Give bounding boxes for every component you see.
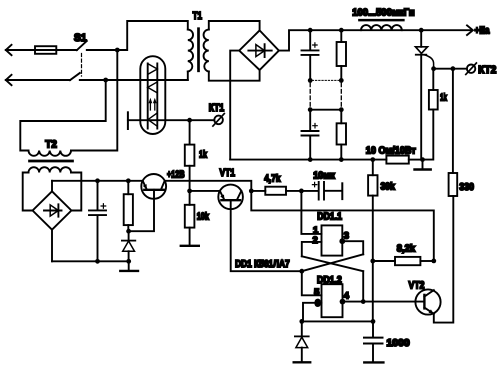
svg-text:DD1.1: DD1.1 — [317, 212, 342, 223]
wire: T1 secondary top to bridge — [209, 21, 260, 30]
wire: bus to 39k — [372, 160, 374, 322]
junction: rail right — [371, 319, 376, 324]
wire: latch node to DD1.2 pin5 — [302, 271, 322, 295]
junction: lower bus/C2 — [308, 157, 313, 162]
dotted link — [312, 79, 339, 81]
inductor L — [361, 25, 402, 30]
capacitor C4 (filter) — [96, 181, 98, 261]
wire: pass transistor base — [129, 190, 154, 231]
wire: mains line 2 — [6, 79, 70, 81]
svg-text:S1: S1 — [74, 32, 87, 44]
wire: DD1.1 pin3 out — [342, 241, 363, 254]
junction: bus/R1 — [339, 28, 344, 33]
junction: mid link right bottom — [339, 107, 344, 112]
inductor core bar — [359, 19, 403, 22]
optocoupler U1 body — [140, 56, 165, 134]
optocoupler light arrows — [150, 102, 154, 110]
ground symbol (regulator) — [128, 261, 130, 270]
wire: cross link pin3 to latch node — [302, 254, 363, 271]
optocoupler U1 left rail — [147, 63, 149, 128]
junction: zener/ground rail — [126, 259, 131, 264]
transformer T1 primary winding — [188, 30, 193, 72]
wire: 1k to divider node — [189, 120, 191, 205]
junction: line1/T2 — [115, 48, 120, 53]
resistor 4,7k — [265, 187, 286, 195]
wire: 1k to ground node — [423, 69, 434, 160]
wire: LED line to KT1 — [128, 119, 214, 121]
dashed continuation left — [309, 83, 311, 107]
junction: LED line/1k — [187, 118, 192, 123]
wire: cap node to DD1.1 pin1 — [301, 191, 321, 234]
transistor VT2 — [415, 289, 440, 314]
wire: to 8.2k — [373, 260, 395, 262]
junction: mid link left bottom — [308, 107, 313, 112]
optocoupler U1 right rail — [156, 63, 158, 128]
wire: node to VT1 — [190, 190, 220, 192]
wire: VT2 emitter to 330 — [434, 196, 454, 323]
junction: cap node — [299, 189, 304, 194]
optocoupler photodiode D1 — [148, 64, 158, 75]
wire: node to 4.7k — [251, 190, 265, 192]
ground symbol (1000) — [364, 361, 383, 363]
junction: lower bus/R2 — [339, 157, 344, 162]
wire: DD1.2 pin6 — [303, 303, 322, 322]
svg-text:DD1 К561ЛА7: DD1 К561ЛА7 — [235, 259, 290, 270]
polarity plus 10mk — [312, 182, 316, 186]
wire: bridge VD2 + output — [51, 181, 53, 192]
optocoupler photodiode D2 — [148, 82, 158, 93]
wire: line 2 to T1 primary bottom — [80, 79, 188, 81]
zener diode VD — [122, 240, 135, 242]
resistor 330 — [449, 173, 458, 196]
svg-text:39k: 39k — [381, 182, 396, 193]
resistor 8,2k — [395, 257, 420, 265]
wire: thyristor gate — [425, 55, 434, 69]
fuse FU1 — [35, 46, 56, 54]
capacitor 10mk — [319, 182, 324, 200]
junction: rail left — [299, 319, 304, 324]
junction: bus/39k — [370, 157, 375, 162]
junction: divider node — [187, 188, 192, 193]
svg-text:10k: 10k — [197, 211, 210, 222]
wire: T1 primary bottom — [187, 71, 189, 80]
bridge VD1 diode — [248, 44, 271, 57]
arrow: +Ea — [467, 25, 473, 35]
switch S1 link (dashed) — [81, 53, 83, 75]
wire: to T2 primary left — [20, 80, 105, 151]
junction: VT1 right node — [249, 189, 254, 194]
polarity plus C2 — [313, 124, 317, 128]
bridge rectifier VD1 — [239, 30, 279, 70]
junction: mid link right top — [339, 78, 344, 83]
wire: 4.7k to cap node — [286, 190, 318, 192]
wire: +12V rail — [166, 181, 251, 191]
svg-text:330: 330 — [459, 182, 474, 193]
resistor R1 (bleeder 1) — [337, 42, 346, 66]
wire: bridge VD2 - output — [51, 230, 53, 262]
transformer T2 core — [30, 160, 73, 163]
junction: rail/R — [126, 178, 131, 183]
test point KT1 — [214, 116, 223, 125]
resistor 10 Ohm 10W — [386, 156, 408, 164]
electrode terminal bar 2 — [341, 183, 343, 199]
transformer T1 core — [197, 29, 200, 71]
bridge VD2 diode — [44, 204, 62, 216]
wire: +Ea bus — [279, 30, 471, 50]
svg-text:5: 5 — [314, 287, 319, 297]
wire: mid link bottom — [310, 109, 341, 111]
wire: feedback to pin4 line — [362, 271, 364, 301]
wire: 8.2k to VT2 collector line — [420, 260, 433, 262]
junction: latch node — [299, 269, 304, 274]
junction: C4/ground rail — [95, 259, 100, 264]
junction: pin4/feedback — [361, 299, 366, 304]
junction: KT2 line/330 — [451, 66, 456, 71]
arrow: mains input 1 — [6, 45, 12, 55]
thyristor VS — [420, 30, 422, 159]
IC DD1.1 — [321, 225, 342, 255]
resistor 1k (KT1) — [185, 145, 195, 166]
resistor R2 (bleeder 2) — [337, 123, 346, 144]
polarity plus C4 — [101, 204, 106, 209]
wire: cross link pin2 to DD1.2 out — [302, 256, 363, 271]
junction: DD1.1 pin3 — [339, 238, 345, 244]
pass transistor VT — [141, 174, 166, 199]
wire: 10 Ohm to ground node — [409, 159, 423, 161]
bridge rectifier VD2 — [33, 191, 72, 229]
junction: bus/thyristor — [419, 28, 424, 33]
wire: T2 secondary left — [23, 172, 33, 210]
electrode terminal bar — [127, 112, 129, 129]
junction: line2/T2 — [103, 78, 108, 83]
svg-text:10 Ом/10Вт: 10 Ом/10Вт — [366, 146, 416, 157]
resistor 1k (right) — [429, 90, 438, 110]
wire: DD1.2 pin4 to VT2 base — [342, 301, 423, 303]
svg-text:+12В: +12В — [167, 170, 185, 181]
junction: gate/1k — [431, 66, 436, 71]
junction: collector node — [431, 259, 436, 264]
resistor R (zener feed) — [124, 194, 133, 225]
wire: 330 top to KT2 line — [452, 69, 454, 173]
transformer T2 primary winding — [29, 150, 72, 155]
svg-text:DD1.2: DD1.2 — [317, 275, 342, 286]
test point KT2 — [467, 65, 475, 73]
wire: S1 to T1 primary top — [87, 21, 188, 50]
svg-text:8,2k: 8,2k — [397, 243, 416, 254]
wire: to T2 primary right — [71, 50, 117, 151]
dashed continuation right — [340, 83, 342, 107]
optocoupler LED D3 — [148, 113, 157, 126]
capacitor 1000 — [372, 321, 374, 361]
wire: mains line 1 — [6, 49, 77, 51]
wire: VT1 collector run to VT2 — [251, 191, 434, 261]
svg-text:1: 1 — [313, 225, 318, 235]
svg-text:T1: T1 — [193, 10, 203, 22]
switch S1 pole 1 — [77, 41, 87, 50]
svg-text:4: 4 — [344, 291, 350, 301]
svg-text:1k: 1k — [199, 150, 207, 161]
svg-text:1k: 1k — [440, 92, 447, 103]
svg-text:1000: 1000 — [386, 338, 410, 349]
resistor 10k — [185, 205, 195, 228]
transistor VT1 — [218, 185, 243, 210]
wire: ground rail (regulator) — [52, 260, 129, 262]
switch S1 pole 2 — [70, 73, 80, 80]
transformer T1 secondary winding — [204, 30, 209, 72]
polarity plus C1 — [313, 43, 317, 47]
resistor 39k — [368, 175, 377, 195]
arrow: mains input 2 — [6, 75, 12, 85]
IC DD1.2 — [321, 284, 342, 317]
junction: mid link left top — [308, 78, 313, 83]
junction: ground node — [420, 157, 425, 162]
junction: 39k/8.2k — [370, 259, 375, 264]
wire: T2 secondary right — [71, 172, 81, 210]
svg-text:2: 2 — [312, 235, 317, 245]
capacitor C1 (filter stage 1) — [309, 30, 311, 80]
wire: bottom rail — [302, 320, 373, 322]
wire: DD1.1 pin2 — [302, 242, 322, 256]
capacitor C2 (filter stage 2) — [309, 110, 311, 160]
junction: DD1.2 pin4 — [340, 299, 346, 305]
ground symbol (10k) — [189, 228, 191, 245]
wire: T1 secondary bottom to bridge — [209, 70, 260, 81]
wire: VT1 base to latch node — [231, 200, 302, 271]
svg-text:4,7k: 4,7k — [264, 174, 281, 185]
junction: bus/C1 — [308, 28, 313, 33]
svg-text:+Еа: +Еа — [475, 26, 490, 37]
svg-text:3: 3 — [344, 230, 349, 240]
wire: KT2 line — [434, 68, 467, 70]
wire: lower bus — [230, 159, 386, 161]
svg-text:10мк: 10мк — [313, 170, 336, 181]
junction: base/zener — [126, 229, 131, 234]
svg-text:T2: T2 — [45, 139, 57, 151]
svg-text:КТ1: КТ1 — [209, 102, 225, 114]
wire: bridge VD1 minus to lower bus — [230, 51, 239, 160]
svg-text:VT1: VT1 — [220, 167, 236, 179]
svg-text:VT2: VT2 — [408, 280, 424, 292]
wire: raw DC rail — [52, 180, 141, 182]
svg-text:100...500мкГн: 100...500мкГн — [352, 8, 414, 19]
diode VD (protection) — [301, 321, 303, 361]
junction: rail/C4 — [95, 178, 100, 183]
svg-text:КТ2: КТ2 — [478, 64, 496, 76]
ground symbol (diode) — [294, 361, 311, 363]
ground symbol (bus) — [422, 160, 424, 169]
transformer T2 secondary winding — [29, 167, 72, 172]
